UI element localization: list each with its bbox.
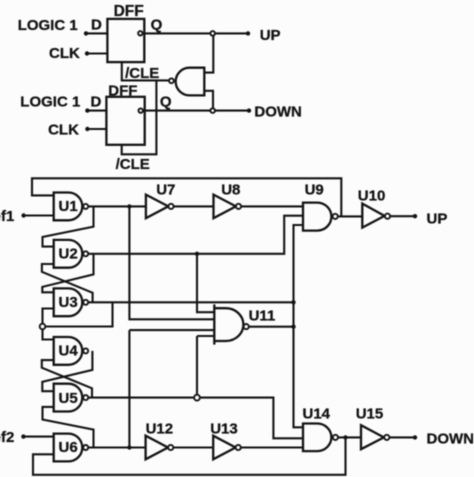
svg-text:U9: U9 xyxy=(305,182,324,199)
svg-text:DFF: DFF xyxy=(114,3,144,20)
svg-text:UP: UP xyxy=(427,210,448,227)
svg-text:U14: U14 xyxy=(303,405,331,422)
svg-text:U5: U5 xyxy=(59,390,78,407)
svg-text:LOGIC 1: LOGIC 1 xyxy=(18,17,78,34)
svg-text:U6: U6 xyxy=(59,439,78,456)
svg-text:Q: Q xyxy=(151,17,163,34)
svg-text:U13: U13 xyxy=(210,421,238,438)
svg-text:LOGIC 1: LOGIC 1 xyxy=(20,93,80,110)
svg-text:Q: Q xyxy=(160,93,172,110)
svg-text:D: D xyxy=(91,94,102,111)
svg-text:U12: U12 xyxy=(146,421,174,438)
svg-text:U2: U2 xyxy=(59,245,78,262)
svg-text:CLK: CLK xyxy=(48,122,79,139)
svg-text:ef2: ef2 xyxy=(0,429,14,446)
svg-text:U4: U4 xyxy=(59,343,79,360)
svg-text:U7: U7 xyxy=(156,182,175,199)
svg-text:DOWN: DOWN xyxy=(427,430,474,447)
svg-text:U3: U3 xyxy=(59,294,78,311)
svg-text:/CLE: /CLE xyxy=(116,156,150,173)
svg-text:DFF: DFF xyxy=(108,82,137,99)
svg-text:U1: U1 xyxy=(59,198,78,215)
svg-text:ef1: ef1 xyxy=(0,208,14,225)
svg-text:DOWN: DOWN xyxy=(254,103,302,120)
svg-text:U11: U11 xyxy=(249,308,276,325)
svg-text:D: D xyxy=(91,17,102,34)
svg-text:U15: U15 xyxy=(356,405,384,422)
svg-text:/CLE: /CLE xyxy=(125,65,159,82)
svg-text:UP: UP xyxy=(260,27,281,44)
svg-text:CLK: CLK xyxy=(49,45,80,62)
svg-text:U10: U10 xyxy=(358,187,386,204)
svg-text:U8: U8 xyxy=(221,182,240,199)
